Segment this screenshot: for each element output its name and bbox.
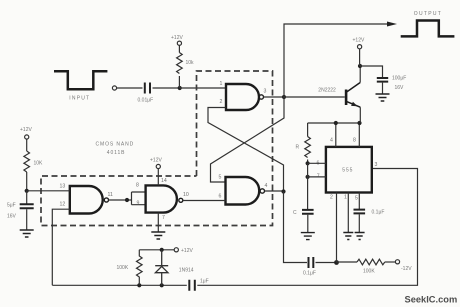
- svg-text:16V: 16V: [395, 85, 405, 91]
- svg-text:5μF: 5μF: [7, 203, 16, 209]
- gate1 output bubble: [259, 95, 263, 99]
- wire +12V to 10K: [26, 139, 28, 151]
- svg-text:9: 9: [137, 201, 140, 207]
- transistor Q1 2N2222: [346, 83, 360, 108]
- +12V terminal (lower left): [174, 248, 178, 252]
- wire R 10k to node A: [178, 76, 180, 88]
- node M junction (pin 7): [306, 175, 310, 179]
- wire pin 4 up to rail: [335, 123, 337, 147]
- resistor R: [305, 137, 311, 158]
- svg-text:100μF: 100μF: [392, 76, 406, 82]
- svg-text:C: C: [293, 210, 297, 216]
- wire node D to 100K: [337, 261, 358, 263]
- wire pin 8 up to rail: [358, 123, 360, 147]
- svg-text:0.1μF: 0.1μF: [372, 210, 385, 216]
- node H junction (diode bottom): [160, 283, 164, 287]
- capacitor C (timing): [302, 210, 314, 214]
- wire C to node A: [153, 87, 180, 89]
- resistor 100K (vertical pullup): [137, 250, 143, 285]
- gate3 output bubble: [104, 198, 108, 202]
- wire pin14 to +12V: [157, 169, 159, 186]
- svg-text:14: 14: [161, 178, 167, 184]
- wire +12V to node N: [359, 49, 361, 66]
- ground (pin 1): [343, 233, 353, 240]
- svg-text:100K: 100K: [363, 269, 375, 275]
- resistor 10k: [177, 53, 183, 74]
- wire node N to 100uF: [360, 66, 383, 77]
- svg-text:4011B: 4011B: [107, 150, 126, 156]
- node K junction (pin8/emitter): [357, 121, 361, 125]
- wire pin6 node to pin7 node to cap C: [307, 163, 309, 209]
- svg-text:12: 12: [60, 202, 66, 208]
- svg-text:16V: 16V: [7, 214, 17, 220]
- node L junction (pin 6): [306, 161, 310, 165]
- emitter arrowhead: [351, 102, 358, 107]
- resistor 10K (left vertical): [24, 151, 30, 172]
- wire node C down to coupling cap: [284, 192, 308, 263]
- gate4 output bubble: [179, 198, 183, 202]
- svg-text:3: 3: [264, 89, 267, 95]
- wire 555 pin 5 to 0.1uF: [358, 193, 360, 210]
- svg-text:4: 4: [265, 183, 268, 189]
- svg-text:11: 11: [108, 192, 113, 198]
- node N junction (collector/+12V): [358, 64, 362, 68]
- output arrowhead: [387, 22, 397, 27]
- svg-text:2N2222: 2N2222: [318, 88, 336, 94]
- svg-text:8: 8: [353, 138, 356, 144]
- svg-text:100K: 100K: [117, 265, 129, 271]
- svg-text:5: 5: [219, 175, 222, 181]
- node F junction: [25, 189, 29, 193]
- svg-text:555: 555: [342, 168, 353, 174]
- svg-text:INPUT: INPUT: [69, 96, 90, 102]
- wire +12V to R 10k: [178, 45, 180, 52]
- node A junction: [178, 86, 182, 90]
- wire node F to 5uF: [26, 191, 28, 204]
- svg-text:SeekIC.com: SeekIC.com: [405, 294, 458, 304]
- svg-text:10: 10: [183, 192, 189, 198]
- bottom rail wire (left): [52, 284, 187, 286]
- 555 timer U2: [326, 147, 372, 193]
- svg-text:0.01μF: 0.01μF: [138, 98, 154, 104]
- svg-text:1: 1: [344, 195, 347, 201]
- svg-text:6: 6: [219, 194, 222, 200]
- svg-text:5: 5: [355, 196, 358, 202]
- svg-text:CMOS NAND: CMOS NAND: [96, 142, 135, 148]
- node E junction: [125, 198, 129, 202]
- svg-text:+12V: +12V: [20, 127, 32, 133]
- svg-text:1: 1: [220, 81, 223, 87]
- resistor 100K (horizontal to -12V): [357, 259, 385, 265]
- pins 8/9 tie bracket: [132, 192, 146, 205]
- svg-text:+12V: +12V: [171, 35, 183, 41]
- node C junction: [281, 189, 285, 193]
- NAND gate U1a (latch top, pins 1,2,3): [226, 84, 259, 110]
- svg-text:-12V: -12V: [401, 266, 412, 272]
- +12V terminal (pin 14 supply): [156, 164, 160, 168]
- +12V supply terminal (left 10K): [25, 135, 29, 139]
- svg-text:13: 13: [60, 184, 66, 190]
- wire pin7 to ground: [157, 213, 159, 232]
- svg-text:8: 8: [136, 183, 139, 189]
- +12V supply terminal (top input pullup): [177, 41, 181, 45]
- svg-text:2: 2: [330, 195, 333, 201]
- ground (100uF): [376, 94, 390, 101]
- node B junction: [282, 95, 286, 99]
- wire 100uF to ground: [382, 83, 384, 94]
- svg-text:+12V: +12V: [150, 158, 162, 164]
- wire input to C 0.01uF: [117, 87, 143, 89]
- wire 100K top to +12V terminal: [139, 249, 174, 251]
- wire pin 12 down to bottom rail: [52, 209, 70, 285]
- capacitor 1uF (series in rail): [189, 280, 195, 291]
- ground (pin 5 cap): [355, 233, 365, 240]
- diode 1N914: [155, 250, 168, 285]
- wire cap to node D: [316, 262, 337, 264]
- dashed box CMOS NAND 4011B: [41, 71, 273, 226]
- svg-text:7: 7: [162, 215, 165, 221]
- wire collector up to node N: [359, 66, 361, 83]
- wire C to ground: [307, 215, 309, 233]
- svg-text:10k: 10k: [186, 60, 195, 66]
- NAND gate U1b (latch bottom, pins 5,6,4): [226, 177, 260, 205]
- wire 100K to -12V terminal: [385, 261, 396, 263]
- svg-text:1μF: 1μF: [200, 279, 209, 285]
- gate2 output bubble: [260, 189, 264, 193]
- wire node A to gate1 pin1: [180, 87, 226, 89]
- input pulse waveform: [54, 71, 107, 89]
- emitter rail wire: [308, 122, 360, 124]
- NAND gate U1c (pins 13,12,11): [70, 186, 103, 214]
- ground (5uF): [20, 230, 34, 237]
- wire rail corner down to R: [307, 123, 309, 137]
- wire 5uF to ground: [26, 209, 28, 230]
- bottom rail wire (right) to 555 pin 3: [197, 169, 417, 286]
- node I junction (diode top): [160, 248, 164, 252]
- -12V terminal: [395, 260, 399, 264]
- wire node B to transistor base: [284, 96, 345, 98]
- cross-couple wire node B to gate2 pin5: [211, 97, 285, 182]
- wire R to pin6 node: [307, 160, 309, 164]
- svg-text:OUTPUT: OUTPUT: [414, 11, 442, 17]
- svg-text:4: 4: [330, 138, 333, 144]
- wire 555 pin 1 to ground: [347, 193, 349, 233]
- +12V terminal (collector): [358, 45, 362, 49]
- node G junction (100K bottom): [137, 283, 141, 287]
- wire gate1 output to node B: [264, 96, 285, 98]
- wire 555 pin 2 down to node D: [336, 193, 338, 263]
- capacitor 5uF 16V: [20, 204, 34, 208]
- svg-text:10K: 10K: [34, 161, 44, 167]
- svg-text:2: 2: [220, 99, 223, 105]
- node J junction (pin4/rail): [334, 121, 338, 125]
- wire 10K to node F: [26, 172, 28, 191]
- ground (C): [301, 233, 315, 240]
- capacitor 0.1uF (pin 5 bypass): [354, 210, 366, 214]
- svg-text:+12V: +12V: [181, 248, 193, 254]
- capacitor 100uF 16V: [377, 78, 388, 82]
- wire node B up and right to output arrow: [284, 24, 388, 97]
- input terminal: [112, 86, 116, 90]
- capacitor 0.01uF: [145, 83, 150, 94]
- svg-text:1N914: 1N914: [179, 267, 194, 273]
- wire pin 7: [308, 176, 326, 178]
- wire node F to pin 13: [27, 190, 70, 192]
- wire 0.1uF to ground: [358, 214, 360, 232]
- cross-couple wire gate2 output to gate1 pin2: [208, 108, 284, 192]
- NAND gate U1d (pins 8,9,10): [146, 185, 177, 212]
- ground (pin 7): [151, 232, 165, 239]
- svg-text:3: 3: [375, 162, 378, 168]
- node D junction (555 pin2 net): [334, 260, 339, 265]
- output pulse waveform: [401, 21, 455, 37]
- svg-text:+12V: +12V: [353, 38, 365, 44]
- wire gate3 out to node E: [109, 199, 132, 201]
- wire gate2 output to node C: [265, 190, 284, 192]
- svg-text:R: R: [296, 145, 300, 151]
- capacitor 0.1uF (trigger coupling): [309, 257, 314, 268]
- svg-text:0.1μF: 0.1μF: [303, 271, 316, 277]
- wire pin 6: [308, 162, 326, 164]
- wire gate4 output to gate2 pin6: [183, 200, 226, 202]
- wire emitter down to rail: [359, 107, 361, 123]
